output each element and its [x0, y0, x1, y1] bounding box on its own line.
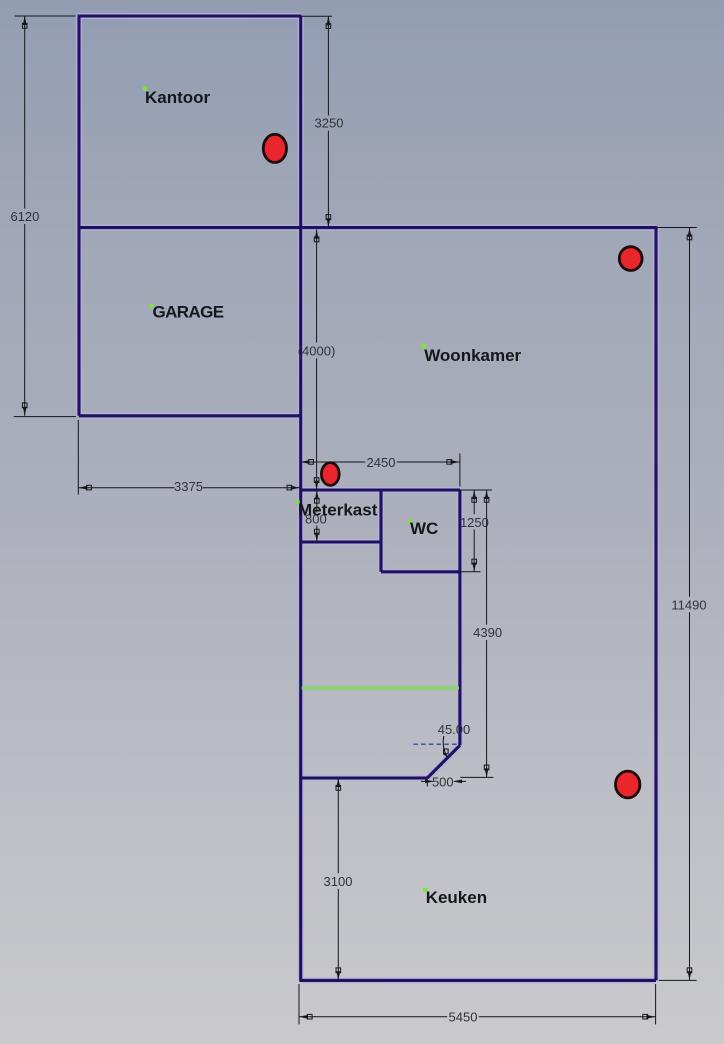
svg-text:5450: 5450 [449, 1010, 478, 1025]
svg-text:3100: 3100 [324, 874, 353, 889]
dimension 3375 [78, 420, 299, 495]
svg-text:WC: WC [410, 519, 438, 538]
svg-text:1250: 1250 [460, 515, 489, 530]
svg-text:Kantoor: Kantoor [145, 88, 211, 107]
red marker Meterkast [321, 463, 339, 486]
room label WC [408, 520, 412, 524]
dimension 800 [316, 490, 318, 541]
room label Woonkamer [421, 344, 426, 349]
room label Meterkast [296, 500, 300, 504]
svg-text:3375: 3375 [174, 479, 203, 494]
dimension 3100 [337, 778, 339, 980]
wall halo layer [78, 16, 656, 980]
svg-text:Meterkast: Meterkast [298, 501, 378, 520]
green sketch line [302, 687, 459, 690]
wall core layer [78, 16, 656, 980]
dashed construction line for 45.00 [414, 743, 458, 745]
svg-text:4390: 4390 [473, 625, 502, 640]
room label Keuken [423, 888, 428, 893]
svg-text:45.00: 45.00 [438, 722, 471, 737]
room label Kantoor [143, 87, 147, 91]
svg-text:(4000): (4000) [298, 343, 336, 358]
dimension 500 [421, 778, 466, 787]
dimension 5450 [299, 984, 656, 1024]
svg-text:2450: 2450 [367, 455, 396, 470]
svg-text:Keuken: Keuken [426, 888, 487, 907]
room label GARAGE [149, 304, 153, 308]
dimension 3250 [302, 16, 333, 227]
svg-text:500: 500 [432, 775, 454, 790]
dimension (4000) [316, 230, 318, 490]
svg-text:3250: 3250 [315, 116, 344, 131]
dimension 11490 [656, 228, 697, 981]
svg-text:GARAGE: GARAGE [153, 303, 224, 322]
red marker Kantoor [263, 134, 286, 162]
dimension 6120 [14, 16, 76, 417]
red marker Keuken right [616, 771, 640, 798]
dimension 4390 [460, 490, 493, 777]
svg-text:6120: 6120 [10, 209, 39, 224]
svg-text:Woonkamer: Woonkamer [424, 346, 521, 365]
dimension 2450 [300, 453, 460, 486]
dimension 1250 [459, 490, 492, 572]
svg-text:11490: 11490 [671, 597, 706, 612]
red marker Woonkamer top right [619, 247, 642, 271]
angle dimension 45.00 [443, 736, 447, 757]
